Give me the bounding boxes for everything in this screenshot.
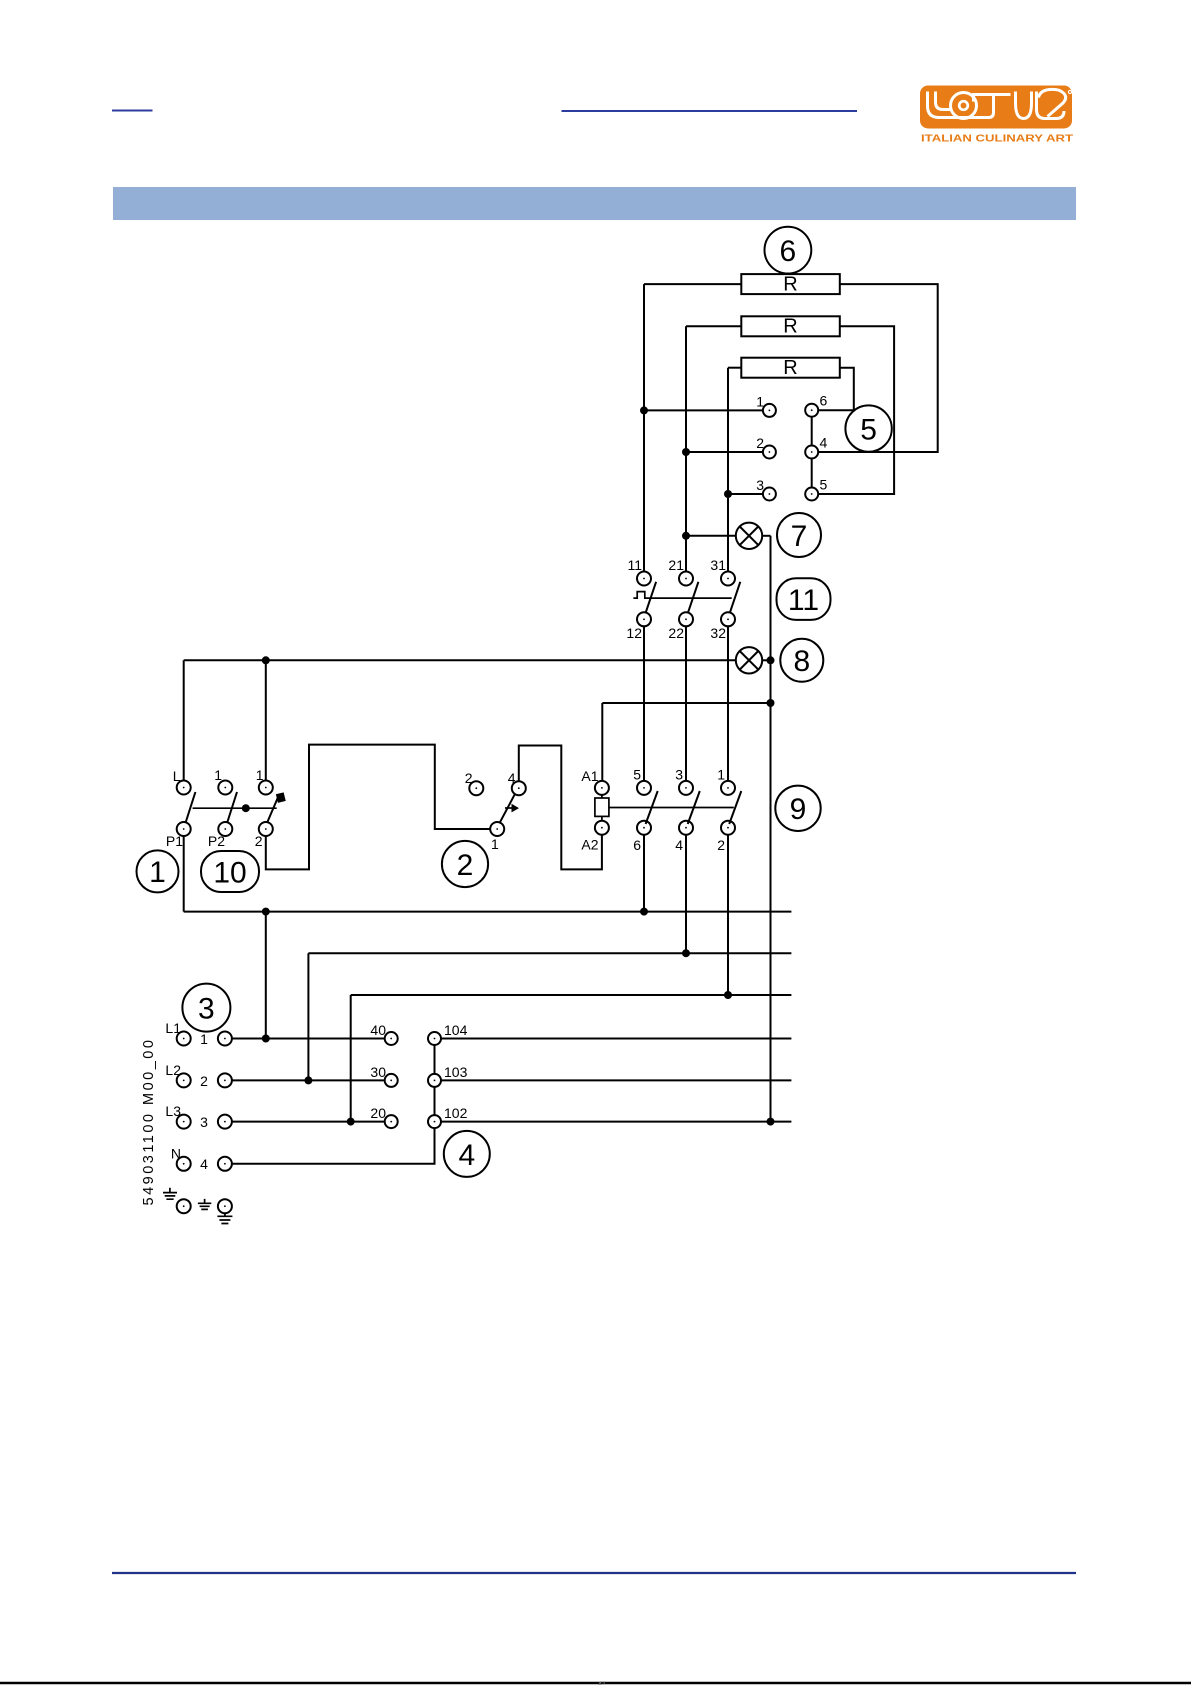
wire node C1 to pin 1: [644, 409, 763, 411]
svg-text:6: 6: [633, 837, 641, 853]
coil linkage to contacts: [609, 807, 734, 809]
resistor R1: [741, 274, 840, 296]
junction line2/contactor4: [682, 949, 690, 957]
wire line3: [351, 994, 792, 996]
wire riser line2 to L2 row: [307, 953, 309, 1080]
terminal 3: [200, 1114, 232, 1130]
svg-text:R: R: [783, 357, 797, 379]
svg-text:ITALIAN CULINARY ART: ITALIAN CULINARY ART: [921, 134, 1073, 145]
wire left bus vertical to pin L: [183, 660, 185, 780]
svg-text:31: 31: [710, 557, 726, 573]
connector pin 20: [370, 1105, 397, 1128]
junction L3/right bus: [767, 1118, 775, 1126]
svg-text:4: 4: [820, 435, 828, 451]
junction line3/contactor2: [724, 991, 732, 999]
callout 11: [777, 578, 831, 620]
terminal pin 3: [756, 477, 776, 501]
svg-text:2: 2: [255, 833, 263, 849]
callout 6: [765, 227, 812, 274]
LOTUS logo: [920, 86, 1072, 129]
svg-text:P2: P2: [208, 833, 225, 849]
footer blue rule: [112, 1572, 1076, 1574]
connector pin 104: [428, 1022, 468, 1045]
contactor pin 4: [675, 821, 693, 853]
svg-text:7: 7: [791, 520, 808, 553]
svg-text:5: 5: [633, 767, 641, 783]
pushbutton pin P1: [166, 822, 191, 849]
svg-text:8: 8: [793, 645, 810, 678]
terminal L3: [165, 1103, 190, 1129]
svg-text:4: 4: [675, 837, 683, 853]
svg-text:A2: A2: [581, 837, 598, 853]
maintained contact square: [276, 792, 286, 802]
wire riser to L1 row: [265, 912, 267, 1039]
wire staircase switch2 feed: [266, 745, 490, 870]
junction bus/L1 riser: [262, 908, 270, 916]
wire P1 down to bottom bus: [183, 836, 185, 912]
wire node to pin 1 of maintained switch: [265, 660, 267, 780]
callout 5: [845, 405, 891, 451]
wire column C1 down to contact 11: [643, 284, 645, 571]
wire riser line3 to L3 row: [350, 995, 352, 1122]
ground symbol 3: [217, 1213, 232, 1223]
wire L3 row left: [232, 1121, 385, 1123]
svg-text:4: 4: [458, 1139, 475, 1172]
connector pin 102: [428, 1105, 468, 1128]
callout 7: [777, 513, 821, 557]
contact 11-12 pin 11: [627, 557, 651, 586]
connector pin 40: [370, 1022, 397, 1045]
svg-text:3: 3: [198, 993, 215, 1026]
terminal 1: [200, 1031, 232, 1047]
svg-text:12: 12: [626, 625, 642, 641]
terminal PE 2: [218, 1199, 232, 1213]
contactor blade 1-2: [729, 791, 741, 824]
relay pin A1: [581, 768, 609, 795]
junction L2/riser: [304, 1076, 312, 1084]
wire link 104-103: [434, 1045, 436, 1074]
contactor pin 5: [633, 767, 651, 795]
relay coil: [595, 795, 609, 821]
contact pin 32: [710, 612, 735, 641]
svg-text:2: 2: [465, 770, 473, 786]
terminal pin 5: [805, 477, 827, 501]
wire C2 to lamp 7: [686, 535, 736, 537]
terminal pin 6: [805, 393, 827, 417]
terminal L2: [165, 1062, 190, 1087]
svg-text:11: 11: [627, 557, 642, 573]
wire column C3 down to contact 31: [727, 368, 729, 572]
contact 21-22 pin 21: [668, 557, 693, 586]
svg-text:P1: P1: [166, 833, 183, 849]
junction L3/line3 riser: [347, 1118, 355, 1126]
svg-text:L: L: [173, 768, 181, 784]
junction C2/lamp7: [682, 532, 690, 540]
svg-text:11: 11: [788, 584, 819, 617]
wire A1 feed line: [602, 702, 770, 704]
callout 1: [137, 850, 179, 892]
pushbutton P1 pin L: [173, 768, 191, 795]
linkage junction dot: [242, 804, 250, 812]
wire link pin4-pin5: [811, 459, 813, 488]
callout 8: [780, 639, 823, 682]
wire contactor 6 down to bottom bus: [643, 835, 645, 912]
wire pin22 down to contactor 3: [685, 626, 687, 781]
lamp 8: [736, 647, 762, 673]
resistor R3: [741, 357, 840, 379]
contact blade 21-22: [688, 582, 698, 613]
svg-text:2: 2: [717, 837, 725, 853]
wire L2 row right: [441, 1079, 791, 1081]
resistor R2: [741, 316, 840, 338]
svg-text:20: 20: [370, 1105, 386, 1121]
lamp 7: [736, 523, 762, 549]
wire R1 left to column C1: [644, 283, 741, 285]
blade P2: [227, 792, 237, 822]
pushbutton P2 pin 1: [214, 767, 232, 795]
wire contactor 4 down to line2: [685, 835, 687, 954]
svg-text:L3: L3: [165, 1103, 181, 1119]
svg-text:22: 22: [668, 625, 684, 641]
contact blade 11-12: [646, 582, 656, 613]
connector pin 30: [370, 1064, 397, 1087]
terminal 4: [200, 1156, 232, 1172]
junction left bus top: [262, 656, 270, 664]
svg-text:3: 3: [200, 1114, 208, 1130]
contact pin 22: [668, 612, 693, 641]
ground symbol 2: [198, 1199, 211, 1210]
svg-text:A1: A1: [581, 768, 598, 784]
junction C3/pin3: [724, 490, 732, 498]
contactor pin 6: [633, 821, 651, 853]
terminal N: [171, 1146, 191, 1171]
page bottom black rule: [0, 1682, 1191, 1685]
pushbutton pin P2: [208, 822, 232, 849]
svg-text:1: 1: [756, 394, 764, 410]
maintained switch pin 1: [256, 767, 273, 795]
wire R3 left to column C3: [728, 367, 741, 369]
svg-text:2: 2: [756, 435, 764, 451]
contactor blade 3-4: [688, 791, 700, 824]
svg-text:R: R: [783, 274, 797, 296]
contact 31-32 pin 31: [710, 557, 735, 586]
svg-text:549031100 M00_00: 549031100 M00_00: [141, 1038, 157, 1206]
wire pin4 up over to relay A2: [519, 746, 602, 870]
title band: [113, 187, 1076, 220]
contactor pin 3: [675, 767, 693, 795]
terminal pin 4: [805, 435, 827, 459]
svg-text:2: 2: [457, 849, 474, 882]
svg-text:5: 5: [820, 477, 828, 493]
blade maintained switch: [267, 794, 279, 822]
svg-text:5: 5: [860, 414, 877, 447]
svg-text:40: 40: [370, 1022, 386, 1038]
svg-text:21: 21: [668, 557, 684, 573]
junction A1 feed/right bus: [767, 699, 775, 707]
terminal L1: [165, 1020, 190, 1046]
mechanical linkage P1-P2-S: [193, 807, 277, 809]
callout 2: [442, 841, 488, 887]
wire lamp 8 right: [762, 659, 770, 661]
svg-text:3: 3: [675, 767, 683, 783]
svg-text:104: 104: [444, 1022, 468, 1038]
junction bus/contactor6: [640, 908, 648, 916]
wire L2 row left: [232, 1079, 385, 1081]
header long blue rule: [562, 110, 858, 112]
wire R1 right down to pin 4: [818, 284, 938, 452]
svg-text:9: 9: [790, 793, 807, 826]
wire node C3 to pin 3: [728, 493, 763, 495]
svg-text:32: 32: [710, 625, 726, 641]
header short blue rule: [112, 110, 153, 112]
svg-text:1: 1: [717, 767, 725, 783]
junction lamp8/right bus: [767, 656, 775, 664]
junction C1/pin1: [640, 406, 648, 414]
svg-text:103: 103: [444, 1064, 468, 1080]
svg-text:6: 6: [780, 235, 797, 268]
relay pin A2: [581, 821, 609, 853]
callout 3: [182, 984, 230, 1032]
blade P1: [186, 792, 196, 822]
connector pin 103: [428, 1064, 468, 1087]
wire R2 right down to pin 5: [818, 326, 894, 494]
callout 4: [444, 1131, 490, 1177]
junction C2/pin2: [682, 448, 690, 456]
wire right bus vertical: [770, 536, 772, 1122]
contactor blade 5-6: [646, 791, 658, 824]
wire line2: [308, 952, 791, 954]
svg-text:41: 41: [598, 1681, 606, 1685]
svg-text:3: 3: [756, 477, 764, 493]
svg-text:102: 102: [444, 1105, 468, 1121]
svg-text:6: 6: [820, 393, 828, 409]
wire pin32 down to contactor 1: [727, 626, 729, 781]
wire left bus to lamp 8: [184, 659, 736, 661]
wire link pin6-pin4: [811, 417, 813, 446]
svg-text:10: 10: [213, 857, 246, 890]
svg-text:4: 4: [508, 770, 516, 786]
selector switch pin 4: [508, 770, 526, 795]
wire pin12 down to contactor 5: [643, 626, 645, 781]
svg-text:1: 1: [214, 767, 222, 783]
contactor pin 1: [717, 767, 735, 795]
contactor pin 2: [717, 821, 735, 853]
wire link 103-102: [434, 1087, 436, 1115]
terminal PE 1: [177, 1199, 191, 1213]
wire L1 row right: [441, 1038, 791, 1040]
callout 10: [201, 851, 259, 892]
wire lamp 7 right: [762, 535, 770, 537]
wire L3 row right: [441, 1121, 791, 1123]
wire bottom bus: [184, 911, 792, 913]
wire L1 row left: [232, 1038, 385, 1040]
wire R3 right down to pin 6: [818, 368, 854, 411]
callout 9: [775, 786, 820, 831]
pushbutton actuator and linkage: [633, 592, 731, 599]
terminal pin 1: [756, 394, 776, 417]
selector switch pin 2: [465, 770, 484, 795]
wire R2 left to column C2: [686, 325, 741, 327]
wire node C2 to pin 2: [686, 451, 763, 453]
maintained switch pin 2: [255, 822, 273, 849]
wire A1 feed down to coil: [601, 703, 603, 781]
svg-text:1: 1: [200, 1031, 208, 1047]
wire contactor 2 down to line3: [727, 835, 729, 995]
contact blade 31-32: [730, 582, 740, 613]
svg-text:L1: L1: [165, 1020, 181, 1036]
ground symbol 1: [163, 1188, 177, 1199]
junction L1/riser: [262, 1035, 270, 1043]
contact pin 12: [626, 612, 651, 641]
svg-text:1: 1: [491, 836, 499, 852]
selector blade 1-4: [499, 794, 515, 824]
svg-text:2: 2: [200, 1073, 208, 1089]
svg-text:1: 1: [256, 767, 264, 783]
selector switch pin 1: [490, 822, 504, 852]
svg-text:N: N: [171, 1146, 181, 1162]
svg-text:R: R: [783, 316, 797, 338]
terminal pin 2: [756, 435, 776, 459]
terminal 2: [200, 1073, 232, 1089]
wire N row to connector 102: [232, 1128, 435, 1164]
svg-text:L2: L2: [165, 1062, 181, 1078]
selector arrow: [505, 807, 512, 809]
svg-text:4: 4: [200, 1156, 208, 1172]
wire column C2 down to contact 21: [685, 326, 687, 571]
svg-text:1: 1: [149, 856, 166, 889]
svg-text:30: 30: [370, 1064, 386, 1080]
